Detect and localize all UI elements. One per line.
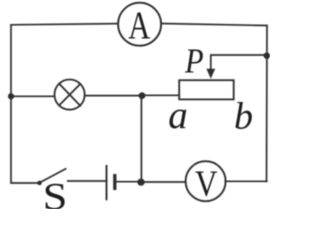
wire wiper horizontal from node E [211, 54, 267, 56]
switch S blade [39, 169, 66, 183]
label A (ammeter) [128, 3, 150, 47]
battery long plate [106, 165, 108, 200]
wire node D to voltmeter [141, 181, 186, 183]
wire voltmeter to bottom-right corner [225, 180, 267, 182]
ammeter A circle [118, 3, 161, 46]
node B junction dot [8, 93, 14, 99]
label b (right terminal) [234, 96, 253, 138]
label P (rheostat) [184, 42, 203, 81]
wire vertical node C to node D [140, 96, 142, 182]
battery short plate [113, 174, 116, 190]
label S (switch) [43, 176, 68, 218]
wire switch to battery [68, 180, 106, 182]
switch contact dot [37, 181, 41, 185]
svg-text:A: A [128, 3, 150, 47]
wire left vertical [10, 25, 12, 183]
wire bottom-left to switch [11, 182, 39, 184]
wire lamp to node C [85, 95, 142, 97]
wire node C to rheostat terminal a [142, 94, 179, 96]
label a (left terminal) [168, 94, 188, 137]
node E junction dot [264, 53, 270, 59]
wire top-right horizontal [162, 24, 268, 26]
svg-text:V: V [195, 164, 218, 205]
lamp cross [59, 84, 80, 106]
wire battery to node D [116, 181, 142, 183]
wire middle-left node B to lamp [11, 95, 55, 97]
voltmeter V circle [186, 161, 226, 201]
wire right vertical [266, 25, 269, 181]
svg-text:S: S [43, 176, 68, 209]
wiper arrowhead [206, 69, 215, 79]
wire wiper vertical [210, 55, 212, 72]
node D junction dot [137, 179, 144, 186]
svg-text:b: b [234, 96, 253, 138]
wire top-left horizontal [11, 24, 118, 25]
label V (voltmeter) [195, 164, 218, 205]
lamp L circle [55, 80, 85, 110]
node C junction dot [139, 92, 146, 99]
svg-text:P: P [184, 42, 203, 81]
svg-text:a: a [168, 94, 188, 137]
rheostat P body rectangle [179, 80, 234, 99]
